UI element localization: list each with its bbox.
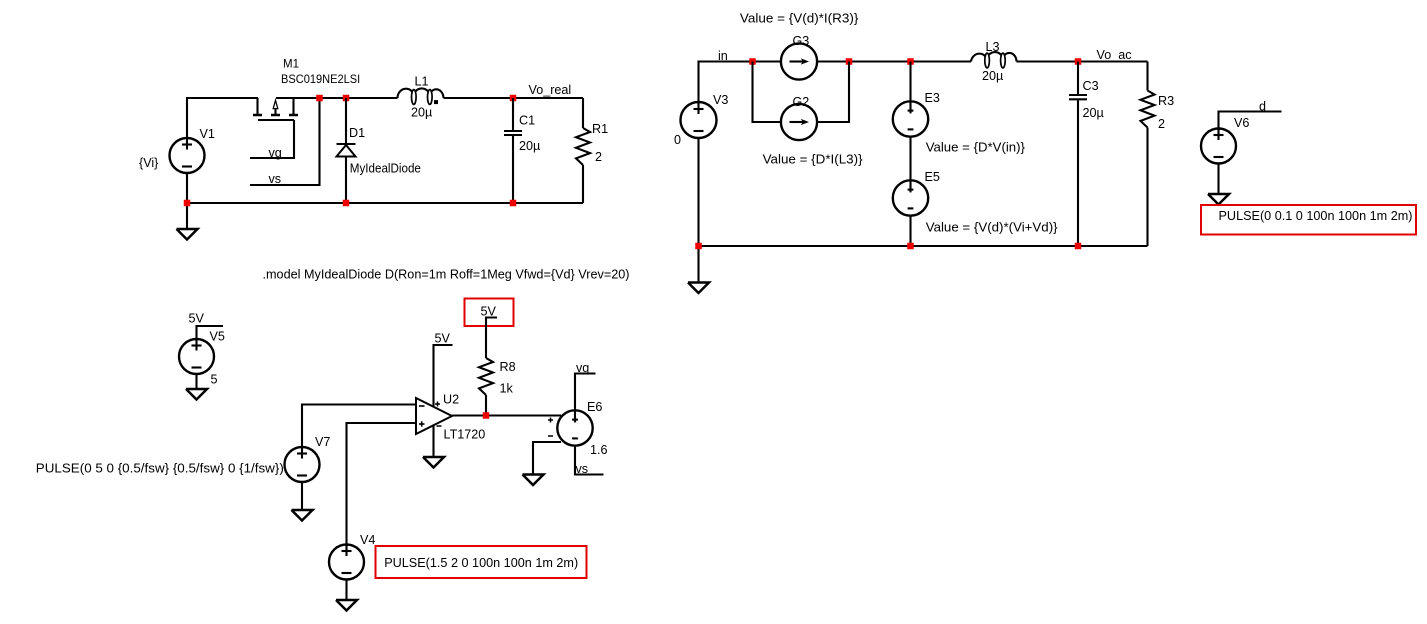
wire V1 bottom [186, 173, 188, 229]
voltage source E6 [548, 410, 593, 445]
inductor L1 [398, 88, 444, 104]
svg-text:C1: C1 [519, 114, 535, 128]
wire E5 bottom stub [909, 216, 911, 246]
svg-text:Value = {D*I(L3)}: Value = {D*I(L3)} [763, 152, 864, 167]
voltage source V3 [681, 102, 717, 138]
svg-text:BSC019NE2LSI: BSC019NE2LSI [281, 74, 360, 86]
label V5 [210, 330, 225, 344]
svg-text:5: 5 [211, 373, 218, 387]
voltage source V5 [179, 339, 214, 374]
wire switch node rail [276, 97, 398, 99]
svg-text:in: in [718, 49, 728, 63]
wire V1 top to M1 drain [187, 98, 258, 138]
svg-text:V4: V4 [360, 533, 375, 547]
node Vo_ac [1097, 48, 1132, 62]
label BSC019NE2LSI [281, 74, 360, 86]
svg-text:20µ: 20µ [982, 69, 1003, 83]
transistor M1 [253, 98, 298, 120]
svg-text:Vo_real: Vo_real [529, 83, 572, 97]
wire vs stub to source node [250, 98, 320, 185]
svg-text:PULSE(0 0.1 0 100n 100n 1m 2m): PULSE(0 0.1 0 100n 100n 1m 2m) [1219, 208, 1413, 223]
node junction C3 top [1075, 58, 1082, 65]
capacitor C1 [504, 98, 522, 203]
op-amp U2 comparator LT1720 [416, 398, 452, 434]
wire L3 to Vo_ac corner [1017, 60, 1148, 62]
label V6 [1234, 116, 1249, 130]
voltage source E5 [893, 180, 928, 215]
wire V5 bottom [195, 374, 197, 389]
svg-text:R8: R8 [500, 360, 516, 374]
node junction C1 bottom [510, 200, 517, 207]
svg-text:R1: R1 [592, 122, 608, 136]
wire U2 output to E6 [452, 414, 561, 416]
svg-text:L3: L3 [986, 40, 1000, 54]
current source G2 [781, 104, 817, 140]
svg-text:Vo_ac: Vo_ac [1097, 48, 1132, 62]
ground below V1 [177, 229, 198, 240]
wire V6 top to node d [1219, 112, 1282, 129]
node 5V stub of V5 [197, 326, 224, 339]
label 20u of L1 [411, 106, 432, 120]
label {Vi} value of V1 [139, 156, 158, 170]
svg-text:vg: vg [576, 361, 589, 375]
wire V3 top to rail [699, 62, 782, 103]
resistor R8 [479, 358, 493, 416]
node junction C3 bottom [1075, 243, 1082, 250]
svg-text:20µ: 20µ [411, 106, 432, 120]
wire E6 minus control to ground [533, 442, 561, 475]
label 5V boxed at R8 top [481, 305, 497, 319]
svg-text:V7: V7 [315, 435, 330, 449]
voltage source V6 [1201, 129, 1236, 164]
wire G2 right branch [817, 62, 849, 123]
node vg [269, 146, 282, 160]
wire bottom rail circuit 2 [699, 245, 1148, 247]
svg-text:V3: V3 [713, 93, 728, 107]
svg-text:D1: D1 [349, 126, 365, 140]
label PULSE of V7 [36, 461, 284, 476]
node vg at E6 [576, 361, 589, 375]
label 20u of C1 [519, 139, 540, 153]
label 20u of C3 [1083, 106, 1104, 120]
wire V7 top to U2 minus input [302, 405, 416, 448]
label V4 [360, 533, 375, 547]
label G3 [793, 34, 810, 48]
wire V6 bottom [1217, 164, 1219, 195]
label M1 [283, 59, 299, 71]
svg-text:PULSE(1.5 2 0 100n 100n 1m 2m): PULSE(1.5 2 0 100n 100n 1m 2m) [384, 555, 578, 570]
svg-text:G3: G3 [793, 34, 810, 48]
svg-text:L1: L1 [415, 75, 429, 89]
svg-text:5V: 5V [435, 332, 451, 346]
node junction D1 cathode [343, 95, 350, 102]
resistor R3 [1141, 62, 1155, 247]
svg-text:vg: vg [269, 146, 282, 160]
svg-text:R3: R3 [1158, 94, 1174, 108]
label 2 of R1 [595, 150, 602, 164]
inductor L3 [971, 52, 1017, 68]
node vs [269, 172, 282, 186]
svg-text:20µ: 20µ [519, 139, 540, 153]
svg-text:E6: E6 [587, 400, 602, 414]
svg-text:.model MyIdealDiode D(Ron=1m R: .model MyIdealDiode D(Ron=1m Roff=1Meg V… [263, 267, 630, 282]
label C3 [1083, 79, 1099, 93]
node junction V1 bottom [184, 200, 191, 207]
wire D1 branch [345, 98, 347, 203]
wire E3 top stub [909, 62, 911, 102]
wire E6 top to vg [575, 374, 596, 411]
svg-text:{Vi}: {Vi} [139, 156, 158, 170]
svg-text:V5: V5 [210, 330, 225, 344]
ground below V3 [688, 283, 709, 294]
svg-text:1k: 1k [500, 382, 514, 396]
svg-text:2: 2 [595, 150, 602, 164]
svg-text:Value = {V(d)*I(R3)}: Value = {V(d)*I(R3)} [740, 10, 859, 25]
wire G3 right to rail [817, 60, 971, 62]
node junction vs tap [316, 95, 323, 102]
wire E3 to E5 [909, 137, 911, 180]
label 20u of L3 [982, 69, 1003, 83]
node junction G sources right [846, 58, 853, 65]
ground below V4 [336, 600, 357, 611]
label Value of G3 [740, 10, 859, 25]
label 5V at V5 [189, 312, 205, 326]
current source G3 [781, 43, 817, 79]
node junction D1 anode [343, 200, 350, 207]
voltage source V1 [170, 138, 205, 173]
label MyIdealDiode [350, 162, 421, 176]
node junction C1 top [510, 95, 517, 102]
diode D1 [337, 144, 356, 157]
voltage source V7 [285, 447, 320, 482]
svg-text:Value = {D*V(in)}: Value = {D*V(in)} [926, 140, 1026, 155]
label 1.6 of E6 [590, 443, 608, 457]
svg-text:V1: V1 [200, 127, 215, 141]
node d [1259, 100, 1266, 114]
label E6 [587, 400, 602, 414]
svg-text:20µ: 20µ [1083, 106, 1104, 120]
svg-text:vs: vs [576, 462, 589, 476]
svg-text:LT1720: LT1720 [444, 428, 486, 442]
ground below V7 [292, 510, 313, 521]
svg-text:C3: C3 [1083, 79, 1099, 93]
node junction G sources left [749, 58, 756, 65]
label V1 [200, 127, 215, 141]
svg-text:U2: U2 [443, 393, 459, 407]
node 5V stub at U2 positive supply [434, 345, 453, 407]
label D1 [349, 126, 365, 140]
node junction V3 bottom [695, 243, 702, 250]
value box of V4 [376, 546, 587, 578]
label E5 [925, 170, 940, 184]
label 5V at U2 supply [435, 332, 451, 346]
ground below V5 [186, 389, 207, 400]
label U2 [443, 393, 459, 407]
node in [718, 49, 728, 63]
label PULSE of V6 [1219, 208, 1413, 223]
label L3 [986, 40, 1000, 54]
wire U2 negative supply [432, 425, 434, 458]
svg-text:M1: M1 [283, 59, 299, 71]
node Vo_real [529, 83, 572, 97]
svg-text:5V: 5V [481, 305, 497, 319]
wire E6 bottom to vs [575, 446, 604, 475]
directive .model MyIdealDiode [263, 267, 630, 282]
label 1k of R8 [500, 382, 514, 396]
svg-text:E3: E3 [925, 91, 940, 105]
voltage source E3 [893, 101, 928, 136]
wire V7 bottom [301, 482, 303, 510]
svg-text:vs: vs [269, 172, 282, 186]
label 5 of V5 [211, 373, 218, 387]
label R3 [1158, 94, 1174, 108]
value box of 5V node at R8 [465, 299, 514, 327]
node 5V tick at R8 top [486, 318, 497, 359]
ground below U2 [423, 457, 444, 468]
svg-text:0: 0 [674, 133, 681, 147]
capacitor C3 [1069, 62, 1087, 247]
label PULSE of V4 [384, 555, 578, 570]
wire V4 bottom [345, 580, 347, 601]
label Value of E3 [926, 140, 1026, 155]
svg-text:G2: G2 [793, 95, 810, 109]
value box of V6 [1201, 205, 1416, 235]
node junction E3 top [907, 58, 914, 65]
label E3 [925, 91, 940, 105]
label C1 [519, 114, 535, 128]
label V7 [315, 435, 330, 449]
label R1 [592, 122, 608, 136]
label R8 [500, 360, 516, 374]
node vs at E6 [576, 462, 589, 476]
label 0 of V3 [674, 133, 681, 147]
label V3 [713, 93, 728, 107]
wire bottom rail circuit 1 [187, 202, 583, 204]
ground below E6 minus control [523, 475, 544, 486]
svg-text:Value = {V(d)*(Vi+Vd)}: Value = {V(d)*(Vi+Vd)} [926, 220, 1058, 235]
label Value of E5 [926, 220, 1058, 235]
ground below V6 [1208, 194, 1229, 205]
label 2 of R3 [1158, 117, 1165, 131]
svg-text:V6: V6 [1234, 116, 1249, 130]
label Value of G2 [763, 152, 864, 167]
svg-text:d: d [1259, 100, 1266, 114]
label L1 [415, 75, 429, 89]
svg-text:E5: E5 [925, 170, 940, 184]
resistor R1 [576, 98, 590, 203]
label G2 [793, 95, 810, 109]
svg-text:PULSE(0 5 0 {0.5/fsw} {0.5/fsw: PULSE(0 5 0 {0.5/fsw} {0.5/fsw} 0 {1/fsw… [36, 461, 284, 476]
wire V3 bottom [697, 138, 699, 283]
voltage source V4 [329, 545, 364, 580]
svg-text:MyIdealDiode: MyIdealDiode [350, 162, 421, 176]
svg-text:2: 2 [1158, 117, 1165, 131]
svg-text:5V: 5V [189, 312, 205, 326]
node junction E5 bottom [907, 243, 914, 250]
wire G2 left branch [753, 62, 782, 123]
wire M1 gate to vg stub [250, 120, 294, 158]
node junction U2 output [483, 412, 490, 419]
svg-text:1.6: 1.6 [590, 443, 608, 457]
label LT1720 [444, 428, 486, 442]
wire L1 to output [444, 97, 584, 99]
wire V4 top to U2 plus input [347, 423, 417, 545]
